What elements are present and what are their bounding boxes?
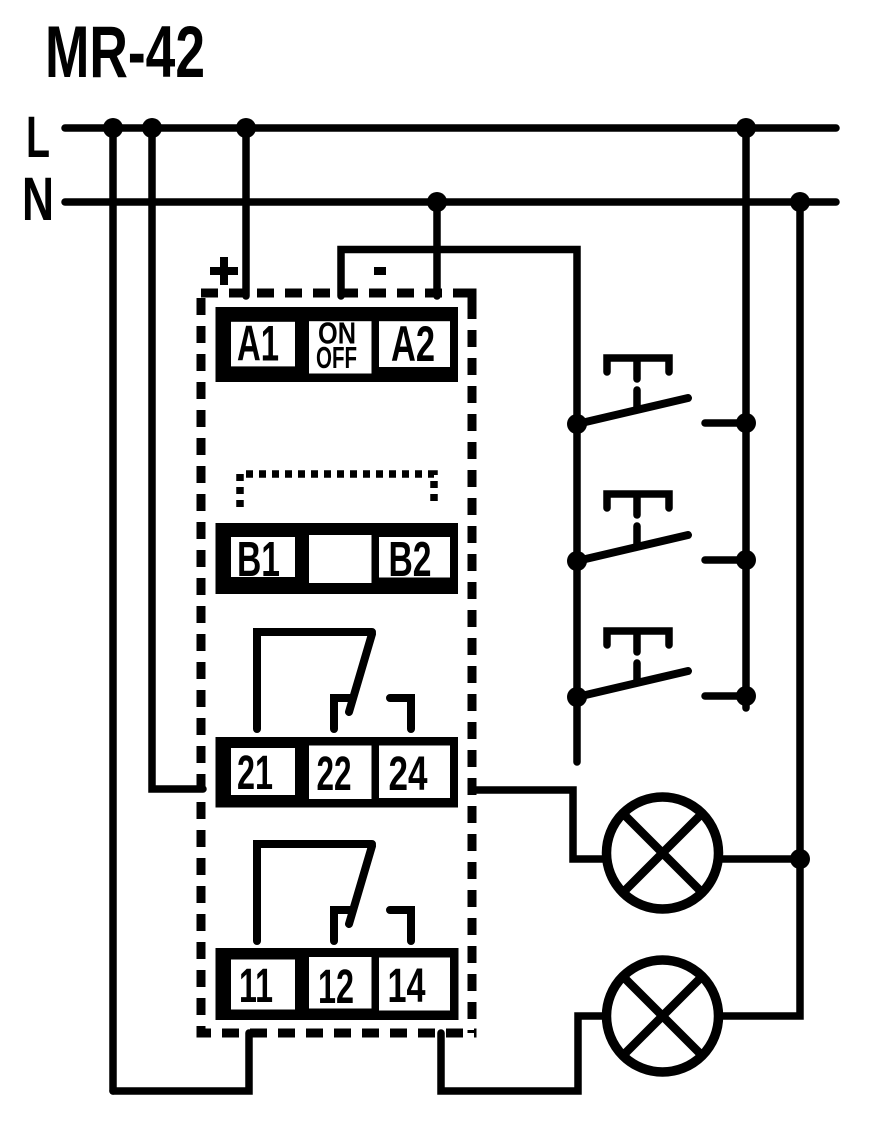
node on N at x=800 [790,192,810,212]
node S3 right [736,686,756,706]
wire bottom left horizontal to terminal 11 [113,1033,249,1091]
svg-text:21: 21 [237,747,273,800]
pushbutton S1 right terminal [705,419,746,427]
label + [210,257,238,285]
pushbutton S2 contact arm [577,535,688,561]
label - [374,267,386,275]
wire N down to lamps right rail [721,202,800,1016]
pushbutton S2 actuator [607,494,669,508]
terminal B1 [231,537,295,577]
svg-text:A2: A2 [391,316,435,372]
terminal B2 [379,537,450,578]
svg-text:12: 12 [318,961,354,1014]
wire N line [65,198,836,206]
relay contact K2 common lead [257,844,372,941]
pushbutton S3 contact arm [577,671,688,697]
node on L at x=246 [236,118,256,138]
lamp E1 [607,797,719,909]
node S1 right [736,413,756,433]
node lamp1 right rail [790,849,810,869]
node S1 pivot [567,414,587,434]
relay contact K1 NC stub (22) [334,698,350,729]
wire lamp1 to N rail [721,855,800,863]
svg-text:MR-42: MR-42 [45,12,205,93]
relay contact K1 common lead [257,632,372,729]
svg-text:N: N [22,165,54,233]
svg-text:24: 24 [389,748,428,801]
wire L to terminal 21 [152,128,203,789]
terminal 24 [379,746,450,799]
module dashed border [197,293,473,1033]
wire L line [65,124,836,132]
terminal A1 [231,322,295,367]
svg-text:11: 11 [239,960,273,1013]
node S2 right [736,550,756,570]
pushbutton S2 right terminal [705,556,746,564]
node on L at x=152 [142,118,162,138]
terminal middle blank [309,535,372,583]
terminal 21 [231,748,295,795]
terminal 14 [379,958,450,1011]
svg-text:22: 22 [317,748,352,801]
node on L at x=113 [103,118,123,138]
node S2 pivot [567,551,587,571]
node on N at x=437 [427,192,447,212]
wire L to terminal 11 (left outer drop) [109,128,117,1091]
relay contact K1 arm [349,634,372,712]
terminal ON/OFF [309,321,372,373]
wire L to push buttons right rail [742,128,750,708]
svg-text:L: L [26,105,50,170]
svg-text:B2: B2 [389,533,432,587]
svg-text:B1: B1 [237,533,280,587]
relay contact K2 arm [349,846,372,924]
lamp E2 [607,960,719,1072]
relay contact K1 NO stub (24) [390,698,411,729]
terminal 22 [309,746,372,800]
terminal block 1x outer [216,948,459,1020]
terminal block B outer [216,523,459,594]
svg-text:14: 14 [388,960,426,1013]
terminal A2 [379,321,450,367]
node S3 pivot [567,687,587,707]
terminal 11 [231,960,295,1010]
terminal 12 [309,957,372,1009]
terminal block 2x outer [216,737,459,808]
dotted link above B1-B2 [240,474,434,507]
pushbutton S1 actuator [607,358,669,372]
wire ON/OFF terminal to push buttons [341,250,577,763]
svg-text:OFF: OFF [316,341,357,375]
wire N to terminal A2 [433,202,441,296]
relay contact K2 NC stub (12) [334,910,350,941]
pushbutton S1 contact arm [577,398,688,424]
relay contact K2 NO stub (14) [390,910,411,941]
wire terminal 14 to lamp2 [441,1016,605,1091]
pushbutton S3 right terminal [705,692,746,700]
terminal block A outer [216,307,459,382]
wire terminal 24 to lamp1 [472,790,604,859]
node on L at x=746 [736,118,756,138]
wire L to terminal A1 [242,128,250,296]
svg-text:A1: A1 [237,316,279,372]
pushbutton S3 actuator [607,631,669,645]
